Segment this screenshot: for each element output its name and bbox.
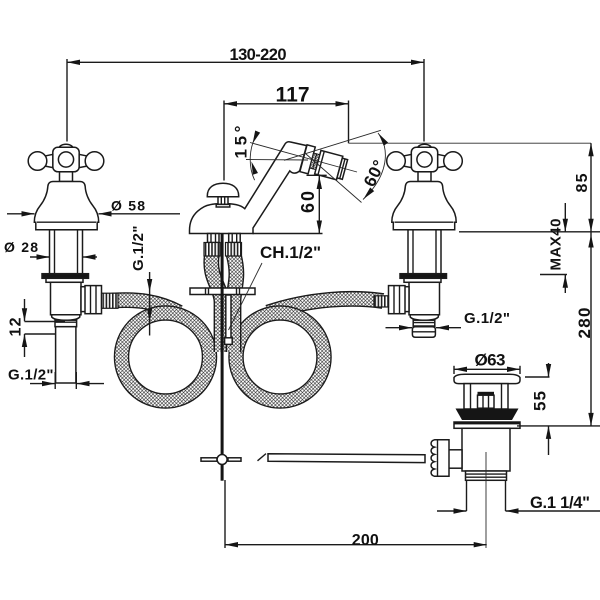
svg-text:60: 60 — [298, 191, 318, 213]
svg-text:G.1/2": G.1/2" — [130, 226, 147, 272]
flexible hose right feed from right valve — [268, 299, 383, 313]
left valve hose nut — [85, 286, 102, 314]
drain washer — [454, 422, 520, 428]
spout body silhouette — [190, 142, 307, 234]
flexible hose left feed from left valve — [112, 300, 179, 312]
left valve tail tube G1/2 — [56, 327, 76, 383]
drain tailpipe — [466, 480, 468, 511]
dimension D58 — [7, 213, 35, 215]
right valve tail cap G1/2 — [412, 327, 435, 338]
mounting bracket bar — [190, 288, 255, 295]
dimension D63 — [454, 368, 520, 370]
drain tail threads — [466, 471, 507, 480]
left valve hose nipple threads — [102, 293, 119, 308]
spout aerator group tilted 15deg — [300, 145, 349, 183]
svg-text:117: 117 — [276, 84, 310, 107]
drain plug lifter knob — [478, 392, 495, 395]
left valve collar — [46, 278, 83, 282]
left valve side port — [81, 287, 89, 312]
left valve shoulder — [52, 315, 80, 321]
pop-up vertical rod — [221, 234, 224, 455]
flexible hose riser to right spout tail — [234, 254, 237, 352]
label G.1 1/4" — [437, 510, 467, 512]
right valve mounting flange — [400, 274, 447, 279]
dimension 60 spout height — [318, 176, 320, 234]
drain centerline — [485, 452, 487, 548]
dimension 200 — [225, 544, 487, 546]
top reference line (85 extension) — [349, 142, 592, 144]
svg-text:12: 12 — [8, 317, 25, 336]
label G.1/2" left bottom — [30, 383, 55, 385]
spout right inlet tail — [229, 234, 241, 243]
svg-text:MAX40: MAX40 — [548, 219, 565, 271]
drain tee step — [448, 450, 462, 468]
svg-text:280: 280 — [575, 308, 594, 339]
svg-text:130-220: 130-220 — [230, 46, 287, 64]
deck line right segment — [459, 231, 600, 233]
right valve collar — [404, 278, 441, 282]
right valve side port — [402, 287, 410, 312]
construction 15deg angle — [250, 143, 357, 173]
drain rubber gasket — [456, 409, 519, 421]
svg-text:G.1/2": G.1/2" — [464, 310, 510, 327]
construction 60deg spray cone — [284, 130, 381, 160]
right valve body block — [409, 282, 440, 315]
flexible hose riser to left spout tail — [211, 254, 221, 352]
svg-text:Ø 58: Ø 58 — [111, 198, 145, 214]
svg-text:55: 55 — [531, 391, 550, 411]
label G.1/2" right valve — [386, 327, 413, 329]
drain body — [462, 428, 510, 471]
dimension D28 — [30, 256, 50, 258]
pop-up horizontal linkage rod — [258, 454, 267, 461]
dimension MAX40 — [564, 203, 566, 232]
left valve mounting flange — [42, 274, 89, 279]
right valve handle and bell — [387, 144, 463, 274]
deck line center-right segment — [253, 233, 323, 235]
pop-up rod pivot — [201, 458, 217, 461]
right valve hose nut — [389, 286, 406, 314]
pop-up rod guide — [226, 295, 231, 339]
dimension 55 — [548, 363, 550, 377]
spout pop-up knob — [207, 183, 238, 197]
left valve tail collar — [55, 320, 77, 327]
svg-text:G.1/2": G.1/2" — [8, 367, 54, 384]
drain knurled nut — [431, 440, 449, 477]
svg-text:200: 200 — [352, 532, 379, 549]
drain neck — [464, 384, 508, 409]
dimension 12 — [24, 299, 26, 321]
dimension 117 — [224, 103, 349, 105]
right valve shoulder — [410, 315, 438, 321]
drain top flange — [454, 374, 520, 383]
svg-text:85: 85 — [574, 173, 591, 192]
right valve tail collar — [413, 320, 435, 327]
left valve handle and bell — [28, 144, 104, 274]
svg-text:CH.1/2": CH.1/2" — [260, 243, 321, 262]
svg-text:G.1 1/4": G.1 1/4" — [530, 494, 590, 512]
dimension 130-220 — [67, 61, 424, 63]
flexible hose right loop — [236, 313, 324, 401]
svg-text:Ø 28: Ø 28 — [4, 239, 38, 255]
dimension 85 — [590, 143, 592, 232]
svg-text:Ø63: Ø63 — [475, 351, 506, 370]
spout left inlet tail — [208, 234, 220, 243]
left valve body block — [51, 282, 82, 315]
drain flange underside extension line — [517, 425, 600, 427]
right valve hose nipple threads — [374, 296, 389, 307]
svg-text:15°: 15° — [232, 125, 251, 158]
flexible hose left loop — [122, 313, 210, 401]
dimension 280 — [590, 232, 592, 426]
